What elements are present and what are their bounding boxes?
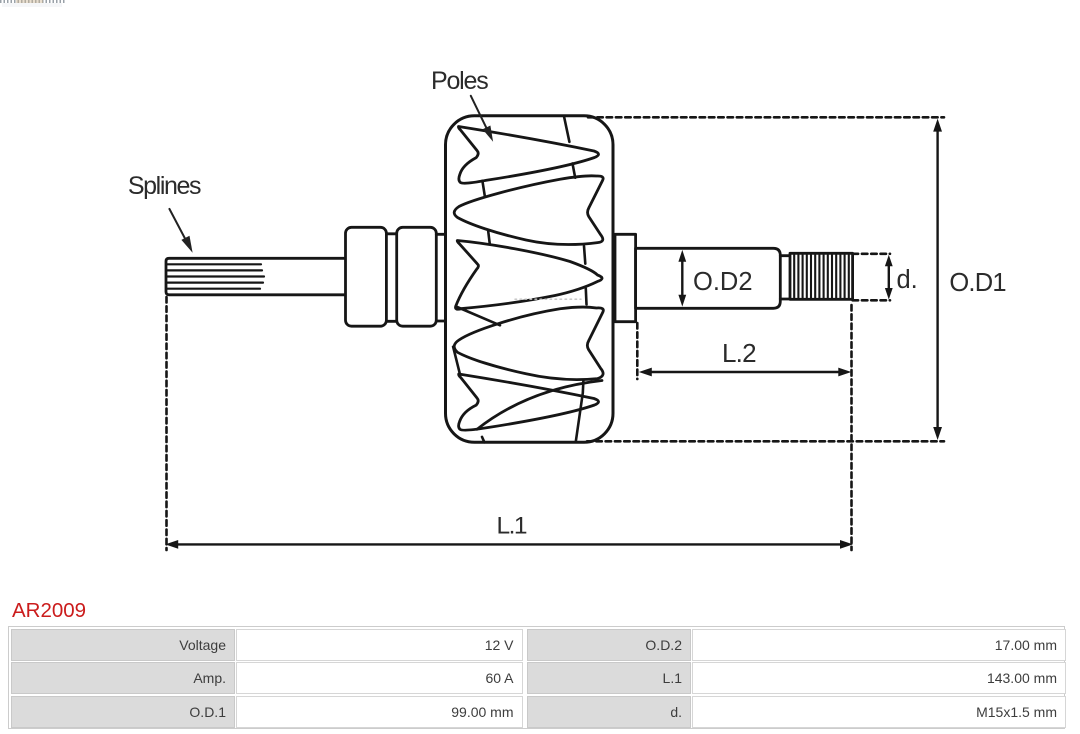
Poles callout arrow: [471, 96, 488, 131]
claw root bottom small: [482, 437, 484, 442]
thread hatch: [794, 255, 849, 298]
O.D1 dimension line: [936, 130, 938, 428]
part number AR2009: [12, 601, 86, 621]
collar 2: [397, 227, 437, 326]
row 2: [11, 662, 236, 694]
L.2 / L.1 extension dashed right: [850, 305, 853, 550]
spline shaft: [166, 258, 347, 295]
pole claw 4: [454, 307, 603, 380]
claw root branch left 4: [453, 347, 460, 373]
spec table: [8, 626, 1065, 729]
row 1: [11, 629, 236, 661]
Splines callout arrow: [169, 209, 186, 242]
claw root line top band: [564, 116, 570, 142]
svg-text:O.D2: O.D2: [693, 268, 753, 296]
d. dashed brackets: [853, 254, 890, 300]
svg-text:O.D1: O.D1: [949, 269, 1005, 297]
watermark dashes top-left: [0, 0, 65, 3]
collar neck 1: [382, 234, 402, 321]
faint center dotted line: [515, 298, 581, 300]
dashed extension top O.D1: [588, 116, 944, 119]
O.D2 dimension arrow: [681, 260, 683, 296]
pole claw 5: [459, 374, 599, 430]
L.2 extension dashed left: [636, 323, 639, 379]
claw 4 long root diagonal: [477, 381, 602, 430]
pole claw 1: [458, 127, 598, 184]
claw root branch right 2: [584, 246, 585, 264]
L.2 dimension line: [650, 371, 839, 373]
claw root branch left 1: [482, 181, 485, 197]
threaded end: [790, 253, 853, 299]
svg-text:L.1: L.1: [497, 512, 527, 539]
d. dimension arrow: [888, 264, 890, 290]
right ring: [615, 234, 636, 321]
row 3: [11, 696, 236, 728]
claw root line bottom band: [576, 381, 584, 442]
claw root branch left 3: [456, 307, 500, 326]
svg-text:L.2: L.2: [722, 338, 756, 368]
L.1 dimension line: [177, 543, 842, 545]
pole body: [446, 116, 614, 443]
collar neck 2: [436, 234, 446, 321]
pole claw 3: [456, 241, 603, 310]
svg-text:Splines: Splines: [128, 172, 201, 200]
claw root branch right 1: [573, 164, 576, 178]
svg-text:d.: d.: [897, 266, 918, 294]
svg-text:Poles: Poles: [431, 67, 488, 95]
dashed extension bottom O.D1: [587, 440, 944, 443]
thread neck: [780, 256, 790, 299]
collar 1: [346, 227, 387, 326]
O.D2 shaft: [636, 248, 781, 308]
splines hatch: [168, 264, 265, 288]
claw root branch left 2: [488, 231, 490, 244]
L.1 extension dashed left: [165, 297, 168, 550]
claw root branch right 3: [584, 289, 587, 305]
pole claw 2: [454, 176, 603, 245]
